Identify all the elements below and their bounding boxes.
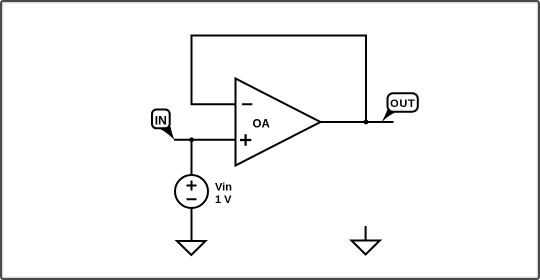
svg-text:IN: IN <box>155 113 167 127</box>
svg-text:1 V: 1 V <box>215 194 232 206</box>
svg-text:OA: OA <box>253 118 270 130</box>
svg-text:Vin: Vin <box>215 182 232 194</box>
svg-text:OUT: OUT <box>390 98 415 110</box>
